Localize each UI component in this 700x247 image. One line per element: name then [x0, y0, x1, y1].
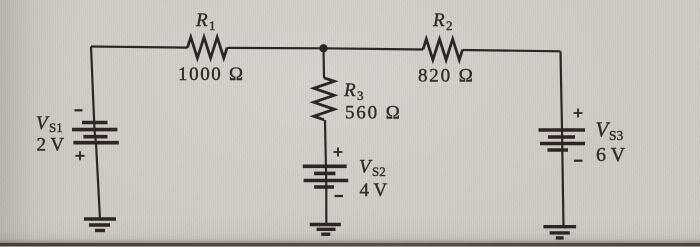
label VS1	[36, 113, 63, 135]
minus sign VS1	[75, 109, 83, 111]
svg-text:R: R	[432, 10, 445, 31]
label 2 V value	[37, 135, 65, 156]
label VS2	[359, 157, 386, 180]
node A junction dot	[319, 44, 327, 52]
svg-text:V: V	[359, 157, 373, 178]
wire top-left horizontal segment	[91, 47, 188, 48]
label 1000 ohm value	[178, 64, 245, 85]
label 560 ohm value	[345, 103, 402, 124]
label R1	[195, 10, 216, 33]
ground right	[543, 227, 576, 238]
ground left	[84, 219, 116, 231]
wire between R1 and node	[227, 47, 323, 50]
wire between R3 and battery VS2	[325, 120, 326, 225]
svg-text:R: R	[343, 80, 356, 101]
svg-text:4 V: 4 V	[360, 180, 388, 201]
plus sign VS2	[334, 148, 343, 157]
resistor R2	[423, 39, 463, 60]
label 820 ohm value	[418, 66, 475, 87]
wire between R2 and top-right corner	[463, 50, 561, 51]
resistor R1	[188, 37, 228, 58]
svg-text:S3: S3	[609, 128, 624, 143]
battery VS1	[72, 123, 119, 143]
ground middle	[310, 225, 341, 235]
svg-text:6 V: 6 V	[596, 144, 626, 166]
svg-text:1: 1	[209, 18, 216, 33]
wire between node and R2	[324, 48, 424, 49]
wire right vertical branch	[561, 51, 564, 226]
svg-text:1000 Ω: 1000 Ω	[178, 64, 245, 85]
wire left vertical branch	[91, 47, 100, 220]
minus sign VS3	[574, 160, 583, 162]
svg-text:2 V: 2 V	[37, 135, 65, 156]
label R2	[432, 10, 453, 33]
wire middle vertical from node to R3	[322, 48, 325, 78]
plus sign VS1	[76, 151, 85, 160]
svg-text:3: 3	[357, 88, 364, 103]
svg-text:560 Ω: 560 Ω	[345, 103, 402, 124]
resistor R3	[314, 78, 335, 120]
label 4 V value	[360, 180, 388, 201]
battery VS3	[539, 130, 586, 150]
label R3	[343, 80, 364, 103]
svg-text:R: R	[195, 10, 208, 31]
label 6 V value	[596, 144, 626, 166]
svg-text:V: V	[36, 113, 50, 134]
battery VS2	[303, 166, 348, 187]
svg-text:820 Ω: 820 Ω	[418, 66, 475, 87]
svg-text:2: 2	[446, 18, 453, 33]
minus sign VS2	[335, 195, 344, 197]
label VS3	[596, 118, 624, 144]
svg-text:S2: S2	[372, 164, 386, 179]
plus sign VS3	[574, 109, 583, 118]
svg-text:S1: S1	[49, 120, 63, 135]
